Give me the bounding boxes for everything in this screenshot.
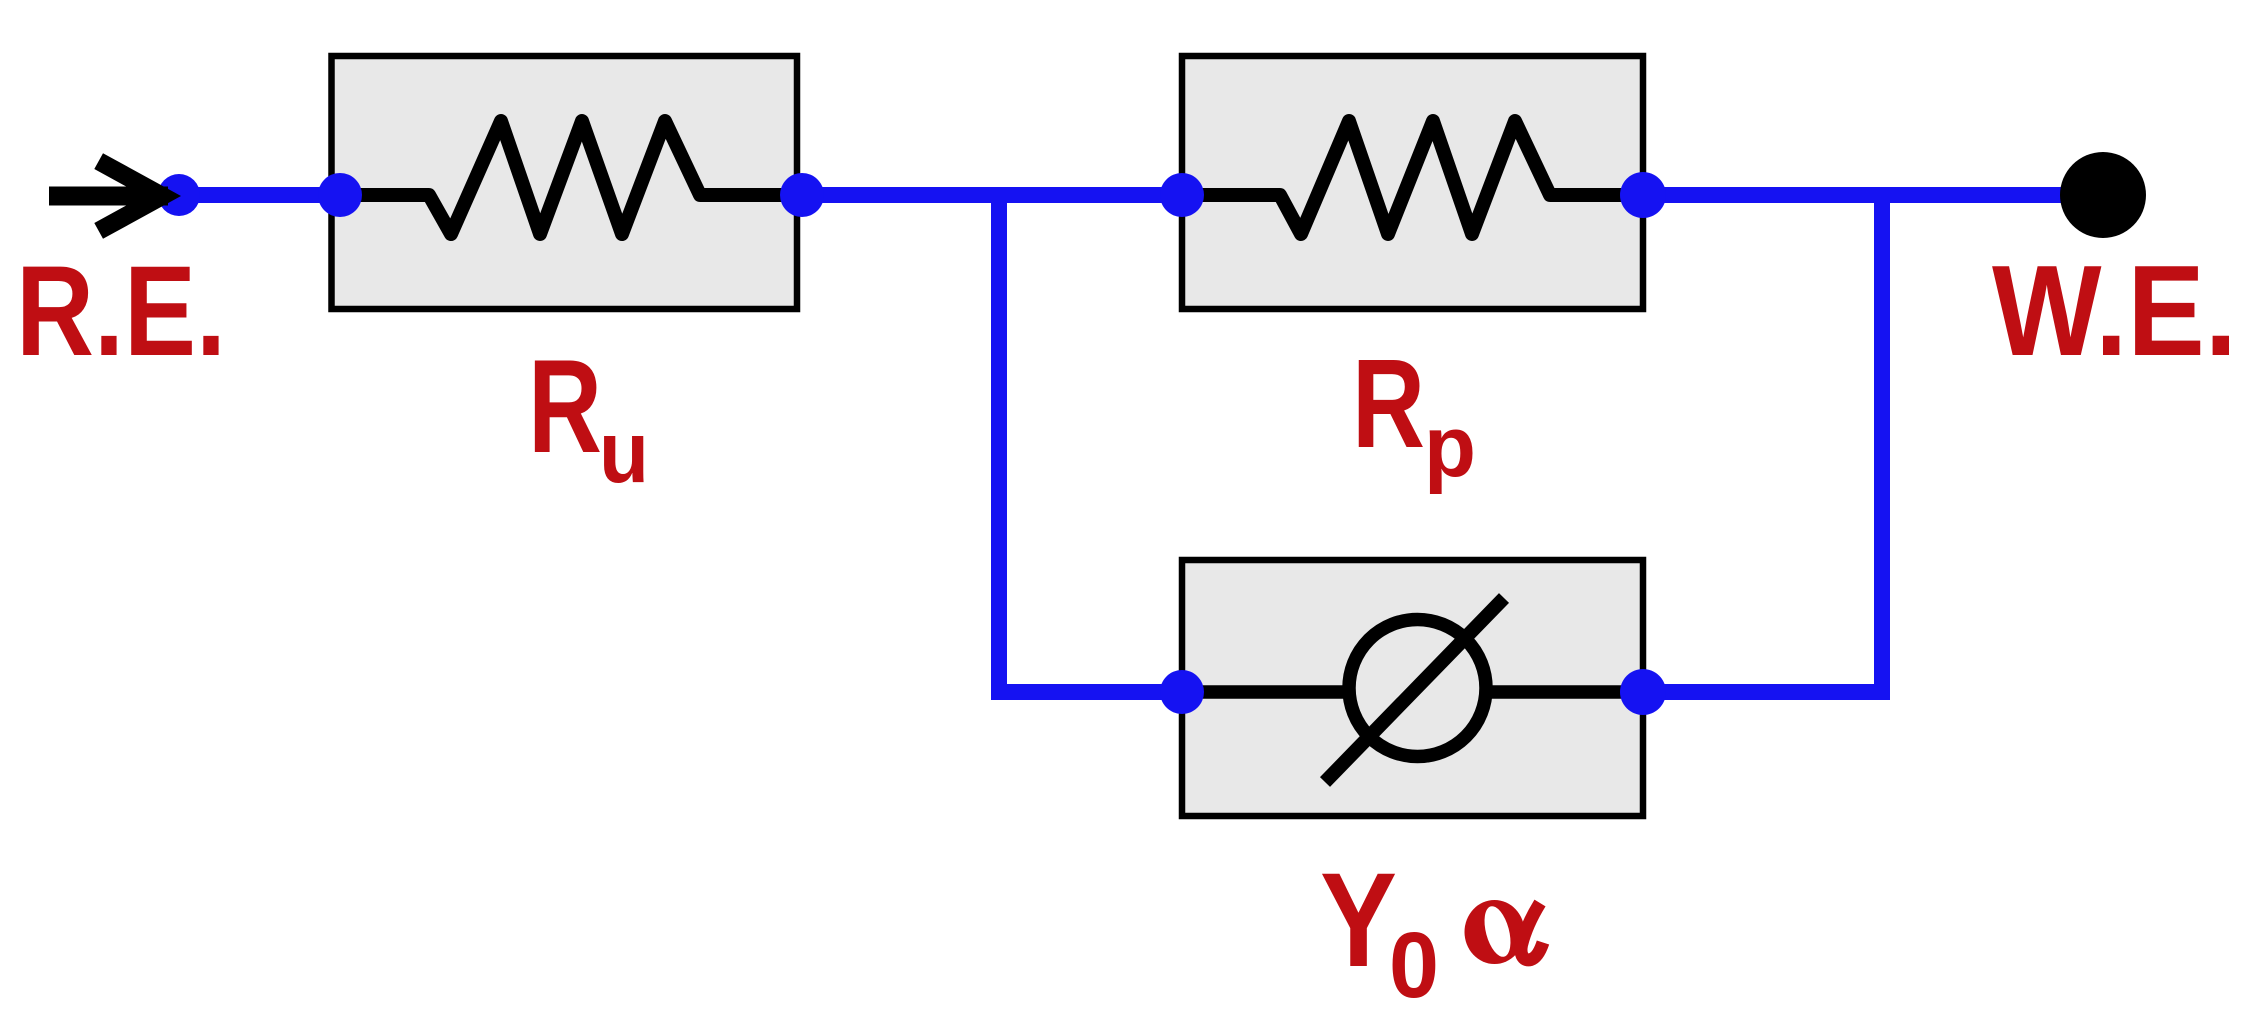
svg-text:R: R xyxy=(528,333,602,481)
svg-text:W.E.: W.E. xyxy=(1992,239,2237,383)
svg-text:u: u xyxy=(599,404,649,501)
svg-text:R: R xyxy=(1352,333,1425,474)
svg-text:p: p xyxy=(1424,399,1476,495)
svg-text:R.E.: R.E. xyxy=(16,240,226,383)
svg-text:Y: Y xyxy=(1320,846,1397,995)
svg-text:0: 0 xyxy=(1389,913,1439,1017)
